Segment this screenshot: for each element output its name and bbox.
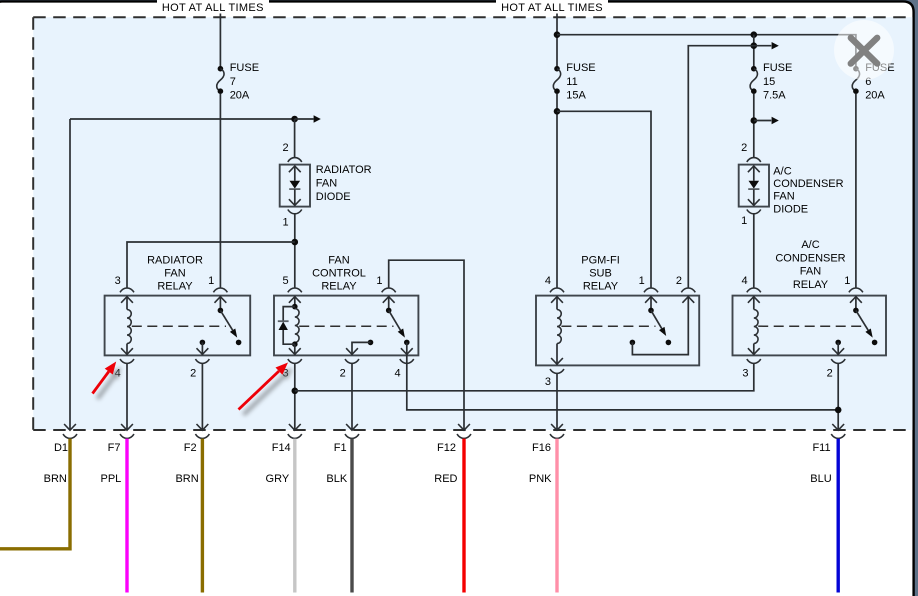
node junction pin 3 fan control relay bbox=[292, 388, 299, 395]
svg-text:CONDENSER: CONDENSER bbox=[775, 252, 845, 264]
relay K3 pin 2 internal lead bbox=[632, 297, 688, 355]
relay K3 coil lead arrow up bbox=[551, 297, 563, 303]
connector cup below border at x=352 bbox=[345, 434, 359, 438]
relay K4 coil bbox=[754, 310, 758, 344]
wire D1 drop down left side bbox=[69, 119, 71, 430]
relay K2 switch arm bbox=[389, 310, 401, 330]
power-area dashed border top bbox=[33, 16, 912, 18]
connector cup pin 3 (PGM-FI) bbox=[550, 369, 564, 373]
relay K2 switch pivot dot bbox=[386, 308, 392, 314]
red callout arrow at radiator fan relay pin 4 bbox=[98, 367, 122, 399]
svg-text:2: 2 bbox=[676, 275, 682, 287]
power-area dashed border left bbox=[32, 17, 34, 430]
svg-text:D1: D1 bbox=[54, 442, 68, 454]
wire stub to off-page arrow bbox=[295, 118, 314, 120]
svg-text:RELAY: RELAY bbox=[583, 281, 619, 293]
wire F7 PPL bbox=[125, 439, 128, 593]
connector cap pin 3 bbox=[120, 288, 134, 292]
svg-text:BRN: BRN bbox=[175, 473, 198, 485]
A/C diode symbol triangle bbox=[749, 181, 760, 189]
connector cup below border at x=294.8 bbox=[288, 434, 302, 438]
diode internal lead arrow up bbox=[289, 166, 301, 172]
wire from fuse block to radiator fan diode (horizontal, D1 net) bbox=[70, 118, 295, 120]
relay K1 switch lead arrow up bbox=[215, 297, 227, 303]
svg-text:BLK: BLK bbox=[326, 473, 347, 485]
svg-text:5: 5 bbox=[282, 275, 288, 287]
svg-text:FAN: FAN bbox=[328, 255, 349, 267]
connector cup below border at x=464 bbox=[457, 434, 471, 438]
wire fuse 15 feed drop bbox=[753, 35, 755, 66]
node junction pin 2 A/C relay bbox=[835, 407, 842, 414]
svg-text:RELAY: RELAY bbox=[157, 281, 193, 293]
svg-text:FAN: FAN bbox=[800, 266, 821, 278]
connector cap pin 2 (PGM-FI) bbox=[681, 288, 695, 292]
svg-text:7.5A: 7.5A bbox=[763, 90, 786, 102]
relay K2 pin 2 lead arrow down bbox=[352, 342, 371, 354]
connector cap pin 1 (PGM-FI) bbox=[644, 288, 658, 292]
relay K2 clamp diode branch bbox=[283, 307, 295, 322]
svg-text:FAN: FAN bbox=[164, 268, 185, 280]
svg-text:2: 2 bbox=[190, 368, 196, 380]
wire A/C diode pin 1 to A/C condenser fan relay pin 4 bbox=[753, 214, 755, 288]
relay K4 switch arm bbox=[856, 310, 868, 330]
relay K1 switch arm bbox=[220, 310, 232, 330]
svg-text:DIODE: DIODE bbox=[773, 203, 808, 215]
svg-text:F1: F1 bbox=[334, 442, 347, 454]
wire to radiator fan relay pin 3 bbox=[127, 242, 295, 288]
relay K2 clamp diode cathode bar bbox=[278, 320, 289, 322]
relay K2 pin 2 terminal dot bbox=[368, 340, 374, 346]
connector cup pin 3 (A/C relay) bbox=[747, 359, 761, 363]
connector cap pin 1 (fan control relay) bbox=[382, 288, 396, 292]
relay K3 switch pivot dot bbox=[648, 308, 654, 314]
relay K1 coil bbox=[127, 310, 131, 344]
svg-text:HOT AT ALL TIMES: HOT AT ALL TIMES bbox=[162, 2, 264, 14]
svg-text:20A: 20A bbox=[230, 90, 250, 102]
wire FUSE 11 to PGM-FI sub relay pin 4 bbox=[556, 94, 558, 288]
node junction below fuse 15 bbox=[751, 117, 758, 124]
svg-text:4: 4 bbox=[741, 275, 747, 287]
svg-text:2: 2 bbox=[340, 368, 346, 380]
relay K3 coil bbox=[557, 310, 561, 344]
wire exit arrow at x=557 bbox=[551, 424, 563, 430]
svg-text:4: 4 bbox=[394, 368, 400, 380]
svg-text:F16: F16 bbox=[532, 442, 551, 454]
svg-text:SUB: SUB bbox=[589, 268, 612, 280]
wire D1 BRN (turns left) bbox=[0, 439, 70, 549]
relay K2 coil lead arrow down bbox=[294, 344, 296, 354]
svg-text:1: 1 bbox=[741, 215, 747, 227]
relay K1 pin 2 lead arrow down bbox=[201, 342, 203, 354]
svg-text:FUSE: FUSE bbox=[763, 62, 792, 74]
relay K3 PGM-FI SUB RELAY box bbox=[536, 296, 699, 366]
svg-text:RELAY: RELAY bbox=[793, 279, 829, 291]
relay K2 coil bottom dot bbox=[292, 341, 298, 347]
connector cap pin 5 bbox=[288, 288, 302, 292]
A/C diode internal lead arrow down bbox=[753, 189, 755, 205]
wire exit arrow at x=464 bbox=[458, 424, 470, 430]
svg-text:HOT AT ALL TIMES: HOT AT ALL TIMES bbox=[501, 2, 603, 14]
svg-text:F12: F12 bbox=[437, 442, 456, 454]
relay K1 internal dashed link bbox=[132, 325, 226, 327]
connector cup pin 2 (A/C relay) bbox=[831, 359, 845, 363]
connector cup pin 4 bbox=[120, 359, 134, 363]
relay K1 coil lead arrow up bbox=[121, 297, 133, 303]
power-area shaded box (hot at all times region) bbox=[33, 17, 912, 430]
wire pin 1 loop to connector F12 bbox=[389, 260, 464, 429]
relay K2 switch contact dot bbox=[404, 340, 410, 346]
connector cup pin 1 of radiator fan diode bbox=[288, 210, 302, 214]
connector cup below border at x=838.2 bbox=[831, 434, 845, 438]
relay K3 common terminal dot bbox=[630, 340, 636, 346]
connector cap pin 4 (PGM-FI) bbox=[550, 288, 564, 292]
svg-text:A/C: A/C bbox=[773, 165, 791, 177]
relay K3 internal dashed link bbox=[561, 325, 655, 327]
relay K3 switch arm bbox=[651, 310, 662, 328]
relay K2 internal dashed link bbox=[299, 325, 393, 327]
connector cup below border at x=127 bbox=[120, 434, 134, 438]
wire branch to PGM-FI sub relay pin 2 bbox=[688, 46, 771, 288]
svg-text:FUSE: FUSE bbox=[230, 62, 259, 74]
wire F14 GRY bbox=[293, 439, 296, 593]
wire FUSE 6 to A/C condenser fan relay pin 1 bbox=[855, 94, 857, 288]
wire exit arrow at x=838.2 bbox=[832, 424, 844, 430]
relay K1 RADIATOR FAN RELAY box bbox=[105, 296, 251, 356]
svg-text:RADIATOR: RADIATOR bbox=[316, 164, 372, 176]
wire exit arrow at x=352 bbox=[346, 424, 358, 430]
power-area dashed border bottom bbox=[33, 429, 912, 431]
node junction below radiator fan diode bbox=[292, 239, 299, 246]
wire pin 2 to connector F11 bbox=[837, 363, 839, 429]
wire exit arrow at x=294.8 bbox=[289, 424, 301, 430]
relay K3 coil lead arrow down bbox=[556, 344, 558, 365]
svg-text:PPL: PPL bbox=[101, 473, 122, 485]
connector cup pin 4 (fan control relay) bbox=[400, 359, 414, 363]
wire F11 BLU bbox=[837, 439, 840, 593]
off-page arrow right (top left feed) bbox=[314, 115, 321, 122]
wire FUSE 7 to radiator fan relay pin 1 bbox=[219, 94, 221, 288]
svg-text:CONDENSER: CONDENSER bbox=[773, 178, 843, 190]
wire exit arrow at x=70 bbox=[64, 424, 76, 430]
wire diode pin 1 to relays bbox=[294, 214, 296, 288]
relay K3 switch contact dot bbox=[666, 340, 672, 346]
svg-text:7: 7 bbox=[230, 76, 236, 88]
close button circle bbox=[834, 20, 894, 80]
connector cup pin 3 (fan control relay) bbox=[288, 359, 302, 363]
svg-text:F2: F2 bbox=[184, 442, 197, 454]
A/C diode internal lead arrow up bbox=[748, 166, 760, 172]
svg-text:DIODE: DIODE bbox=[316, 191, 351, 203]
relay K1 pin 2 terminal dot bbox=[200, 340, 206, 346]
node junction at diode feed bbox=[291, 116, 298, 123]
svg-text:1: 1 bbox=[639, 275, 645, 287]
svg-text:1: 1 bbox=[208, 275, 214, 287]
svg-text:1: 1 bbox=[376, 275, 382, 287]
svg-text:PGM-FI: PGM-FI bbox=[581, 255, 620, 267]
node junction on pin 2 branch line bbox=[751, 42, 758, 49]
wire top feed to fuse 6 (horizontal) bbox=[557, 35, 856, 66]
svg-text:20A: 20A bbox=[865, 90, 885, 102]
wire pin 3 to connector F14 bbox=[294, 363, 296, 429]
connector cap pin 1 (A/C relay) bbox=[849, 288, 863, 292]
wire exit arrow at x=127 bbox=[121, 424, 133, 430]
relay K4 coil lead arrow down bbox=[753, 344, 755, 355]
svg-text:15: 15 bbox=[763, 76, 775, 88]
white patch behind left HOT label bbox=[157, 0, 269, 15]
wire F1 BLK bbox=[350, 439, 353, 593]
wire to PGM-FI sub relay pin 1 bbox=[557, 111, 651, 288]
wire exit arrow at x=202.4 bbox=[197, 424, 209, 430]
fuse F6 symbol (FUSE 6 20A) bbox=[853, 66, 859, 72]
fuse F7 symbol (FUSE 7 20A) bbox=[218, 66, 224, 72]
svg-text:FAN: FAN bbox=[773, 191, 794, 203]
relay K1 switch contact dot bbox=[236, 340, 242, 346]
red callout arrow at fan control relay pin 3 bbox=[244, 368, 294, 415]
node junction below fuse 11 bbox=[554, 108, 561, 115]
off-page arrow right (below fuse 15) bbox=[772, 117, 779, 124]
relay K4 switch lead arrow up bbox=[850, 297, 862, 303]
svg-text:4: 4 bbox=[545, 275, 551, 287]
wire diode pin2 drop bbox=[294, 119, 296, 158]
svg-text:FUSE: FUSE bbox=[566, 62, 595, 74]
svg-text:BRN: BRN bbox=[44, 473, 67, 485]
connector cup below border at x=202.4 bbox=[195, 434, 209, 438]
svg-text:3: 3 bbox=[115, 275, 121, 287]
svg-text:2: 2 bbox=[827, 368, 833, 380]
relay K2 coil bbox=[295, 309, 299, 343]
diode D1 RADIATOR FAN DIODE box bbox=[280, 165, 310, 207]
wire pin 2 to connector F2 bbox=[201, 363, 203, 429]
svg-text:FAN: FAN bbox=[316, 178, 337, 190]
connector cup below border at x=70 bbox=[63, 434, 77, 438]
connector cup pin 2 (fan control relay) bbox=[345, 359, 359, 363]
relay K4 switch contact dot bbox=[872, 340, 878, 346]
svg-text:1: 1 bbox=[282, 217, 288, 229]
connector cup pin 2 bbox=[195, 359, 209, 363]
relay K4 A/C CONDENSER FAN RELAY box bbox=[733, 296, 887, 356]
wire from HOT AT ALL TIMES to FUSE 11 bbox=[556, 14, 558, 67]
node junction above fuse 15 bbox=[751, 31, 758, 38]
svg-text:PNK: PNK bbox=[529, 473, 552, 485]
wire pin 3 to connector F16 bbox=[556, 373, 558, 429]
wire from HOT AT ALL TIMES to FUSE 7 bbox=[219, 14, 221, 67]
node junction top feed split bbox=[554, 31, 561, 38]
diode internal lead arrow down bbox=[294, 189, 296, 205]
fuse F15 symbol (FUSE 15 7.5A) bbox=[751, 66, 757, 72]
wire pin 2 to connector F1 bbox=[351, 363, 353, 429]
relay K2 coil lead arrow up bbox=[289, 297, 301, 303]
relay K4 switch pivot dot bbox=[853, 308, 859, 314]
svg-text:F7: F7 bbox=[108, 442, 121, 454]
relay K2 pin 4 lead arrow down bbox=[406, 342, 408, 354]
svg-text:GRY: GRY bbox=[266, 473, 290, 485]
svg-text:2: 2 bbox=[741, 142, 747, 154]
svg-text:1: 1 bbox=[844, 275, 850, 287]
diode symbol triangle bbox=[290, 181, 301, 189]
wire F12 RED bbox=[462, 439, 465, 593]
wire pin 4 bus to A/C condenser fan relay pin 2 bbox=[407, 354, 838, 410]
relay K4 internal dashed link bbox=[758, 325, 861, 327]
relay K4 pin 2 lead arrow down bbox=[837, 342, 839, 354]
wire F16 PNK bbox=[555, 439, 558, 593]
connector cup below border at x=557 bbox=[550, 434, 564, 438]
svg-text:11: 11 bbox=[566, 76, 577, 88]
diode symbol cathode bar bbox=[289, 188, 300, 190]
relay K1 coil lead arrow down bbox=[126, 344, 128, 355]
svg-text:RELAY: RELAY bbox=[321, 281, 357, 293]
svg-text:RADIATOR: RADIATOR bbox=[147, 255, 203, 267]
connector cap pin 2 of A/C condenser fan diode bbox=[747, 158, 761, 162]
relay K2 switch lead arrow up bbox=[383, 297, 395, 303]
svg-text:CONTROL: CONTROL bbox=[312, 268, 366, 280]
svg-text:BLU: BLU bbox=[810, 473, 831, 485]
relay K3 switch lead arrow up bbox=[645, 297, 657, 303]
wire pin3 bus to A/C condenser fan relay pin 3 bbox=[295, 363, 754, 390]
svg-text:A/C: A/C bbox=[801, 239, 819, 251]
svg-text:F14: F14 bbox=[272, 442, 291, 454]
wire stub to off-page arrow (below fuse 15) bbox=[754, 120, 772, 122]
svg-text:2: 2 bbox=[282, 142, 288, 154]
connector cap pin 2 of radiator fan diode bbox=[288, 158, 302, 162]
diode D2 A/C CONDENSER FAN DIODE box bbox=[739, 165, 769, 207]
close button X icon bbox=[851, 38, 877, 64]
relay K4 coil lead arrow up bbox=[748, 297, 760, 303]
connector cap pin 1 bbox=[213, 288, 227, 292]
svg-text:F11: F11 bbox=[812, 442, 830, 454]
relay K2 clamp diode triangle bbox=[279, 322, 288, 330]
wire F2 BRN bbox=[201, 439, 204, 593]
svg-text:3: 3 bbox=[742, 368, 748, 380]
svg-text:15A: 15A bbox=[566, 90, 586, 102]
connector cup pin 1 of A/C diode bbox=[747, 210, 761, 214]
relay K1 switch pivot dot bbox=[218, 308, 224, 314]
wire FUSE 15 to A/C condenser fan diode bbox=[753, 94, 755, 158]
wire pin 4 to connector F7 bbox=[126, 363, 128, 429]
svg-text:RED: RED bbox=[434, 473, 457, 485]
relay K2 FAN CONTROL RELAY box bbox=[274, 296, 418, 356]
svg-text:3: 3 bbox=[545, 376, 551, 388]
connector cap pin 4 (A/C relay) bbox=[747, 288, 761, 292]
A/C diode symbol cathode bar bbox=[748, 188, 759, 190]
fuse F11 symbol (FUSE 11 15A) bbox=[554, 66, 560, 72]
relay K4 pin 2 terminal dot bbox=[835, 340, 841, 346]
off-page arrow right (pin 2 branch) bbox=[772, 42, 779, 49]
white patch behind right HOT label bbox=[496, 0, 608, 15]
relay K2 coil top dot bbox=[292, 304, 298, 310]
